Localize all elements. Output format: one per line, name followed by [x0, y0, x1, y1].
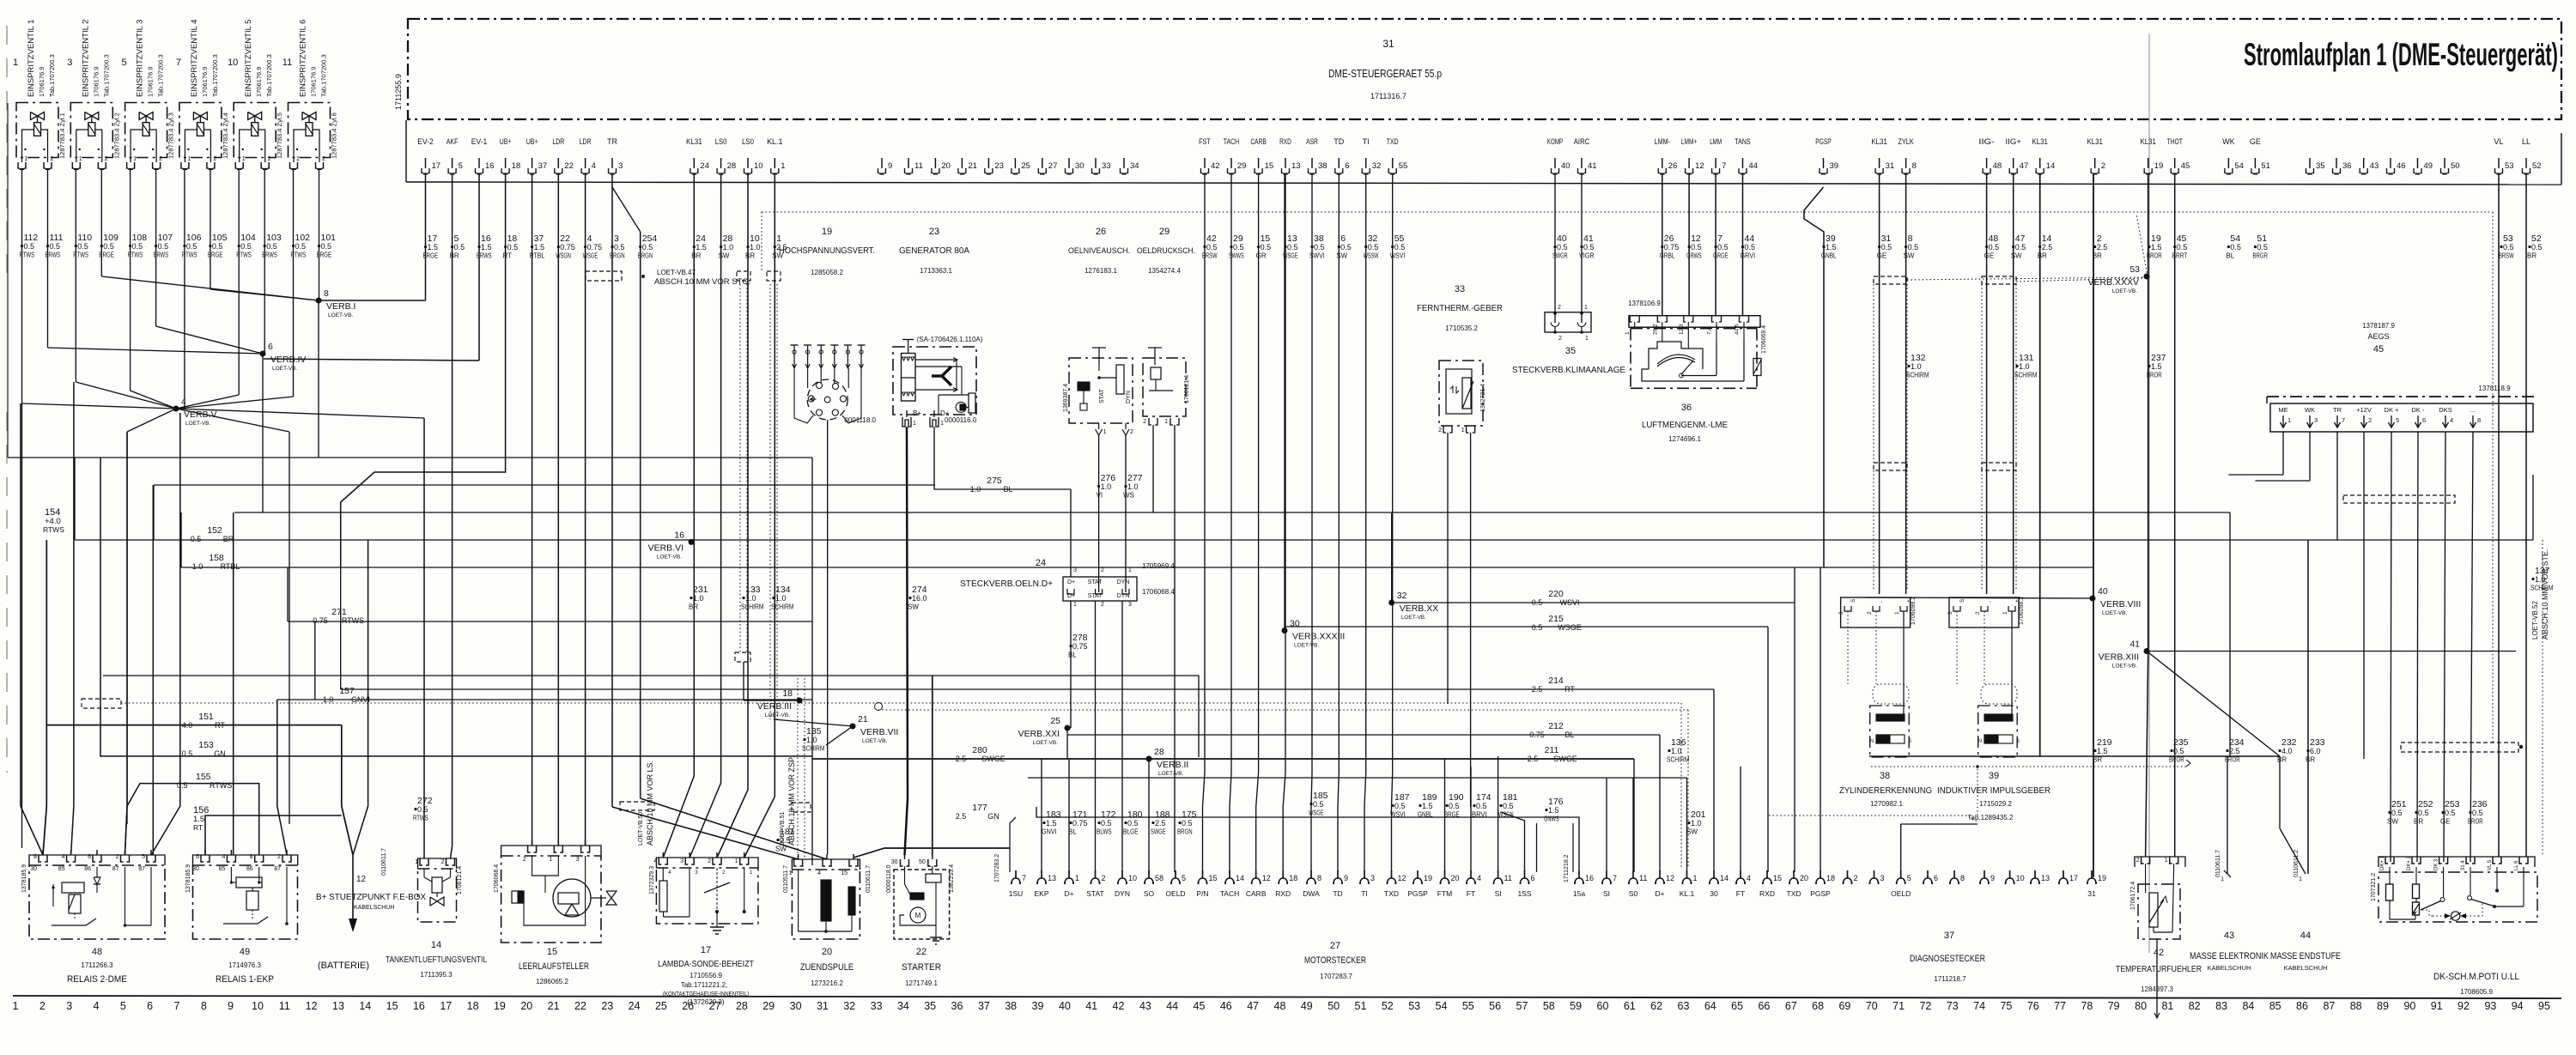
wire 185 label — [1309, 791, 1328, 817]
DME pin 10 LS0 — [742, 137, 762, 174]
svg-text:1287783.4 Zyl.5: 1287783.4 Zyl.5 — [276, 112, 283, 159]
svg-text:95: 95 — [2538, 1000, 2550, 1012]
svg-text:SCHIRM: SCHIRM — [741, 603, 764, 611]
svg-text:1: 1 — [940, 421, 944, 427]
svg-text:44: 44 — [1749, 161, 1759, 171]
svg-text:D+: D+ — [1067, 579, 1075, 585]
svg-text:1.0: 1.0 — [2019, 362, 2030, 371]
svg-text:30: 30 — [1710, 889, 1718, 898]
svg-text:33: 33 — [1455, 284, 1465, 294]
svg-text:1: 1 — [781, 161, 785, 171]
wire 214 label — [1532, 676, 1576, 694]
node VERB.VIII (40) — [2090, 586, 2142, 616]
svg-text:15: 15 — [841, 870, 848, 876]
svg-text:5: 5 — [142, 854, 145, 860]
svg-text:TI: TI — [1363, 137, 1370, 146]
svg-text:BRGR: BRGR — [2252, 252, 2268, 260]
svg-text:23: 23 — [994, 161, 1004, 171]
svg-text:275: 275 — [987, 476, 1002, 486]
svg-text:0.5: 0.5 — [182, 749, 193, 758]
svg-text:ABSCH.10 MM VOR STG.: ABSCH.10 MM VOR STG. — [654, 277, 750, 287]
svg-text:4: 4 — [2450, 416, 2453, 424]
svg-text:1.5: 1.5 — [2151, 243, 2162, 252]
svg-text:7: 7 — [1613, 874, 1617, 882]
svg-text:11: 11 — [283, 58, 292, 68]
svg-text:1: 1 — [913, 421, 916, 427]
svg-text:1274696.1: 1274696.1 — [1668, 435, 1701, 443]
svg-text:11: 11 — [914, 161, 923, 171]
svg-text:53: 53 — [2129, 264, 2140, 275]
DME connector strip outline — [406, 120, 2561, 185]
svg-text:DME-STEUERGERAET 55.p: DME-STEUERGERAET 55.p — [1328, 68, 1442, 80]
svg-text:RXD: RXD — [1275, 889, 1291, 898]
svg-text:1: 1 — [1461, 427, 1465, 434]
svg-text:1: 1 — [2221, 876, 2224, 882]
DME pin 41 AIRC — [1574, 137, 1597, 174]
svg-text:57: 57 — [1516, 1000, 1528, 1012]
svg-text:GN: GN — [214, 749, 226, 758]
svg-text:40: 40 — [2098, 586, 2108, 597]
svg-text:2.5: 2.5 — [1155, 819, 1166, 828]
wire 22 label (0.75 WSGN) — [556, 233, 575, 260]
svg-text:0.5: 0.5 — [1449, 802, 1460, 810]
svg-text:TR: TR — [607, 137, 617, 146]
svg-text:0.75: 0.75 — [1072, 642, 1088, 651]
wire 219 label — [2093, 737, 2112, 764]
svg-text:1378185.9: 1378185.9 — [21, 864, 27, 893]
svg-text:54: 54 — [2234, 161, 2244, 171]
wire 252 label — [2414, 799, 2433, 826]
svg-text:0.5: 0.5 — [212, 242, 223, 251]
svg-text:GNVI: GNVI — [1042, 828, 1057, 836]
svg-text:GENERATOR 80A: GENERATOR 80A — [899, 246, 969, 256]
svg-text:20: 20 — [520, 1000, 532, 1012]
svg-text:2.5: 2.5 — [1532, 685, 1543, 694]
svg-text:1.5: 1.5 — [696, 243, 707, 252]
wire 180 label — [1123, 809, 1143, 836]
svg-text:38: 38 — [1318, 161, 1327, 171]
shield dashed boxes for IIG/ZYLK wires — [1874, 276, 2016, 591]
MOTORSTECKER pin 10 DYN — [1115, 870, 1137, 898]
wire vertical x=118.3 — [100, 170, 102, 276]
svg-text:0.5: 0.5 — [2445, 809, 2456, 817]
svg-text:87: 87 — [2323, 1000, 2335, 1012]
svg-text:87: 87 — [274, 866, 281, 872]
svg-text:SWGE: SWGE — [1553, 755, 1577, 763]
svg-text:0.5: 0.5 — [2257, 243, 2268, 252]
svg-text:OELDRUCKSCH.: OELDRUCKSCH. — [1137, 246, 1195, 256]
svg-text:8: 8 — [33, 854, 37, 860]
svg-text:BRSW: BRSW — [2499, 252, 2514, 260]
wire vertical x=278.2 — [238, 170, 240, 395]
svg-text:44: 44 — [2300, 931, 2311, 941]
svg-text:1287783.4 Zyl.2: 1287783.4 Zyl.2 — [112, 112, 120, 159]
MOTORSTECKER pin 18 RXD — [1275, 870, 1297, 898]
svg-text:50: 50 — [1327, 1000, 1340, 1012]
wire 176 label — [1544, 797, 1564, 823]
svg-text:51: 51 — [1355, 1000, 1367, 1012]
svg-text:DK +: DK + — [2385, 406, 2400, 414]
wire 10 label (1.0 BR) — [745, 233, 761, 260]
svg-text:85: 85 — [219, 866, 226, 872]
node VERB.VI (16) — [648, 530, 695, 560]
wire 137 shield label far right — [2530, 540, 2554, 854]
wire 101 label (0.5 BRGE) — [317, 233, 337, 259]
distributor 19 HOCHSPANNUNGSVERT. — [779, 227, 875, 854]
svg-text:4.0: 4.0 — [2281, 747, 2293, 755]
svg-text:30: 30 — [1075, 161, 1084, 171]
svg-text:1378185.9: 1378185.9 — [185, 864, 191, 893]
svg-text:LAMBDA-SONDE-BEHEIZT: LAMBDA-SONDE-BEHEIZT — [658, 960, 754, 969]
svg-text:18: 18 — [512, 161, 521, 171]
svg-text:15: 15 — [1265, 161, 1274, 171]
svg-text:DK+ 2: DK+ 2 — [2407, 855, 2412, 870]
starter 22 STARTER — [886, 854, 955, 987]
wire 280 label — [956, 745, 1005, 763]
svg-text:24: 24 — [629, 1000, 641, 1012]
svg-text:TXD: TXD — [1387, 137, 1399, 146]
svg-text:1362721.4: 1362721.4 — [1480, 384, 1486, 412]
svg-text:58: 58 — [1543, 1000, 1555, 1012]
wire from DME pin at x=871 — [717, 174, 748, 858]
wire vertical x=88.3 — [75, 170, 76, 382]
svg-text:76: 76 — [2027, 1000, 2039, 1012]
svg-text:RXD: RXD — [1759, 889, 1775, 898]
svg-text:1708605.9: 1708605.9 — [2460, 988, 2493, 996]
DME pin 34 — [1121, 158, 1139, 174]
svg-text:2.5: 2.5 — [2229, 747, 2240, 755]
svg-text:0.5: 0.5 — [103, 242, 114, 251]
wire 233 label — [2306, 737, 2325, 764]
svg-text:59: 59 — [1570, 1000, 1582, 1012]
svg-text:0.5: 0.5 — [2177, 243, 2188, 252]
DIAGNOSESTECKER pin 16 15a — [1573, 870, 1594, 898]
DME pin 15 CARB — [1250, 137, 1273, 174]
svg-text:0.5: 0.5 — [1368, 243, 1379, 252]
wire 17 EV-2 to VERB.I — [319, 174, 426, 300]
cylinder sensor 38 ZYLINDERERKENNUNG — [1838, 597, 1932, 808]
svg-text:20: 20 — [1800, 874, 1808, 882]
svg-text:90: 90 — [2403, 1000, 2415, 1012]
svg-text:BR: BR — [223, 535, 234, 543]
svg-text:61: 61 — [1624, 1000, 1636, 1012]
svg-text:BROR: BROR — [2147, 372, 2162, 379]
DME pin 51 GE — [2250, 137, 2270, 174]
svg-text:1.0: 1.0 — [1101, 482, 1112, 491]
wire vertical x=181.6 — [155, 170, 157, 326]
svg-text:38: 38 — [1005, 1000, 1017, 1012]
svg-text:3: 3 — [1838, 611, 1844, 615]
svg-text:ZYLINDERERKENNUNG: ZYLINDERERKENNUNG — [1839, 786, 1932, 796]
wire 12 label (0.5 GRWS) — [1686, 233, 1702, 260]
svg-text:6: 6 — [196, 854, 199, 860]
svg-text:47: 47 — [1247, 1000, 1259, 1012]
dotted run sensors to diagnosis — [1769, 760, 2190, 822]
wire 253 label — [2440, 799, 2460, 826]
wire 108 label (0.5 RTWS) — [128, 233, 148, 259]
svg-text:EINSPRITZVENTIL 1: EINSPRITZVENTIL 1 — [27, 20, 36, 97]
svg-text:1714976.3: 1714976.3 — [228, 961, 261, 969]
wire horizontal y=533 — [8, 457, 531, 458]
svg-text:RTWS: RTWS — [413, 815, 428, 822]
svg-text:2: 2 — [708, 858, 711, 864]
svg-text:39: 39 — [1830, 161, 1839, 171]
svg-text:40: 40 — [1561, 161, 1571, 171]
DME pin 7 LMM — [1710, 137, 1726, 174]
wire 3 label (0.5 BRGN) — [610, 233, 625, 260]
svg-text:UB+: UB+ — [500, 137, 512, 146]
svg-text:ZYLK: ZYLK — [1898, 137, 1913, 146]
svg-text:OELD: OELD — [1891, 889, 1911, 898]
DME pin 8 ZYLK — [1898, 137, 1916, 174]
DME pin 46 — [2387, 158, 2406, 174]
wire 234 label — [2225, 737, 2245, 764]
svg-text:OELD: OELD — [1165, 889, 1185, 898]
svg-text:15a: 15a — [1573, 889, 1585, 898]
svg-text:0.5: 0.5 — [2531, 243, 2543, 252]
svg-text:1715029.2: 1715029.2 — [1979, 800, 2012, 808]
svg-text:KABELSCHUH: KABELSCHUH — [354, 905, 394, 911]
vertical legs of horizontal runs — [8, 103, 2533, 865]
svg-text:P/N: P/N — [1196, 889, 1208, 898]
wire 41 label (0.5 VIGR) — [1579, 233, 1595, 260]
DME pin 55 TXD — [1387, 137, 1407, 174]
tank vent valve 14 TANKENTLUEFTUNGSVENTIL — [386, 858, 487, 979]
svg-text:64: 64 — [1704, 1000, 1716, 1012]
svg-text:RTWS: RTWS — [210, 781, 232, 790]
svg-text:0.5: 0.5 — [240, 242, 252, 251]
svg-text:43: 43 — [1139, 1000, 1151, 1012]
svg-text:1: 1 — [789, 870, 793, 876]
svg-text:10: 10 — [1128, 874, 1137, 882]
svg-text:46: 46 — [1220, 1000, 1232, 1012]
svg-text:85: 85 — [2269, 1000, 2281, 1012]
svg-text:0.5: 0.5 — [1908, 243, 1919, 252]
wire drop x=1590.7 — [1364, 174, 1366, 872]
AEGS pin wires — [2228, 432, 2549, 862]
svg-text:BL: BL — [1564, 731, 1574, 739]
ruler numbers 1-95 — [13, 1000, 2550, 1012]
wire 42 label (0.5 BRSW) — [1202, 233, 1218, 260]
wire 15 label (0.5 GR) — [1256, 233, 1272, 260]
svg-text:LUFTMENGENM.-LME: LUFTMENGENM.-LME — [1642, 421, 1728, 430]
lambda sensor 17 LAMBDA-SONDE-BEHEIZT — [649, 852, 758, 1006]
svg-text:86: 86 — [246, 866, 253, 872]
wire 154 label — [43, 507, 64, 534]
svg-text:214: 214 — [1548, 676, 1564, 686]
svg-text:13: 13 — [332, 1000, 344, 1012]
svg-text:41: 41 — [1588, 161, 1597, 171]
svg-text:2: 2 — [277, 854, 281, 860]
DIAGNOSESTECKER pin 17 — [2059, 870, 2078, 884]
svg-text:VERB.VIII: VERB.VIII — [2100, 599, 2141, 609]
wire 32 label (0.5 WSSW) — [1364, 233, 1379, 260]
svg-text:0.5: 0.5 — [1989, 243, 2000, 252]
svg-text:KABELSCHUH: KABELSCHUH — [2208, 964, 2251, 972]
svg-text:20: 20 — [822, 947, 832, 957]
svg-text:33: 33 — [1102, 161, 1111, 171]
wire 51 label (0.5 BRGR) — [2252, 233, 2268, 260]
node VERB.XIII (41) — [2099, 640, 2516, 757]
svg-text:36: 36 — [951, 1000, 963, 1012]
svg-text:FT: FT — [1467, 889, 1475, 898]
svg-text:89: 89 — [2377, 1000, 2389, 1012]
svg-text:31: 31 — [817, 1000, 829, 1012]
svg-text:0.5: 0.5 — [1340, 243, 1352, 252]
DME pin 44 TANS — [1735, 137, 1758, 174]
svg-text:24: 24 — [700, 161, 709, 171]
DME pin 29 TACH — [1224, 137, 1247, 174]
ignition coil 20 ZUENDSPULE — [783, 854, 872, 987]
svg-text:RT: RT — [1564, 685, 1575, 694]
svg-text:30: 30 — [30, 866, 37, 872]
wire 220 from VERB.XX — [1392, 602, 1795, 603]
DME pin 45 THOT — [2167, 137, 2190, 174]
shield termination note LOET-VB.47 — [586, 187, 750, 287]
svg-text:2: 2 — [441, 859, 445, 865]
wire 274 label — [908, 585, 927, 611]
svg-text:1.5: 1.5 — [2151, 362, 2162, 371]
svg-text:1378118.9: 1378118.9 — [2478, 385, 2511, 392]
wire 18 label (0.5 RT) — [503, 233, 519, 260]
svg-text:0.5: 0.5 — [1394, 243, 1406, 252]
svg-text:TXD: TXD — [1384, 889, 1399, 898]
svg-text:1354274.4: 1354274.4 — [1148, 267, 1181, 275]
svg-text:LOET-VB.: LOET-VB. — [272, 366, 297, 372]
svg-text:RT: RT — [215, 721, 225, 730]
svg-text:2: 2 — [322, 156, 325, 162]
DIAGNOSESTECKER pin 20 TXD — [1787, 870, 1809, 898]
wire drop x=1497 — [1283, 174, 1285, 872]
svg-text:2.5: 2.5 — [956, 755, 967, 763]
svg-text:25: 25 — [1021, 161, 1030, 171]
svg-text:LMM+: LMM+ — [1681, 137, 1697, 146]
ground lug 43 MASSE ELEKTRONIK — [2190, 756, 2269, 972]
svg-text:10: 10 — [252, 1000, 264, 1012]
svg-text:BL: BL — [1003, 485, 1012, 494]
DME pin 19 KL31 — [2141, 137, 2164, 174]
svg-text:SCHIRM: SCHIRM — [2014, 372, 2038, 379]
DIAGNOSESTECKER pin 2 — [1844, 870, 1858, 884]
svg-text:4: 4 — [1477, 874, 1481, 882]
wire 39 label (1.5 GNBL) — [1821, 233, 1837, 260]
svg-text:2: 2 — [2368, 416, 2372, 424]
wire from DME pin at x=839.6 — [690, 174, 720, 858]
DIAGNOSESTECKER pin 12 D+ — [1655, 870, 1674, 898]
wire 171 label — [1068, 809, 1088, 836]
svg-text:LOET-VB.: LOET-VB. — [185, 421, 210, 427]
svg-text:22: 22 — [916, 947, 927, 957]
DME pin 43 — [2360, 158, 2379, 174]
svg-text:32: 32 — [843, 1000, 855, 1012]
svg-text:KL31: KL31 — [1871, 137, 1886, 146]
svg-text:177: 177 — [972, 803, 987, 813]
DME pin 52 LL — [2522, 137, 2542, 174]
svg-text:LS0: LS0 — [742, 137, 754, 146]
svg-text:25: 25 — [1050, 716, 1060, 726]
wire 29 label (0.5 SWWS) — [1229, 233, 1244, 260]
svg-text:1707283.2: 1707283.2 — [994, 854, 1000, 882]
svg-text:60: 60 — [1597, 1000, 1609, 1012]
DME pin 39 PGSP — [1815, 137, 1838, 174]
svg-text:WS: WS — [1123, 492, 1134, 500]
svg-text:45: 45 — [2373, 344, 2384, 355]
svg-text:DKS: DKS — [2439, 406, 2451, 414]
wire 277 label — [1123, 473, 1143, 500]
svg-text:1706176.9: 1706176.9 — [255, 67, 263, 97]
wire drop x=1434 — [1230, 174, 1231, 872]
svg-text:3: 3 — [1073, 567, 1077, 573]
svg-text:SCHIRM: SCHIRM — [1906, 372, 1929, 379]
svg-text:91: 91 — [2431, 1000, 2443, 1012]
svg-text:1SS: 1SS — [1517, 889, 1531, 898]
svg-text:7: 7 — [174, 1000, 180, 1012]
wire horizontal y=787 — [103, 675, 1199, 676]
svg-text:43: 43 — [2370, 161, 2379, 171]
DME pin 4 LDR — [580, 137, 596, 174]
svg-text:ABSCH.10 MM VOR ZSP.: ABSCH.10 MM VOR ZSP. — [787, 756, 796, 846]
DIAGNOSESTECKER pin 6 — [1923, 870, 1938, 884]
svg-text:EINSPRITZVENTIL 2: EINSPRITZVENTIL 2 — [81, 20, 90, 97]
wire 19 label (1.5 BROR) — [2147, 233, 2162, 260]
svg-text:4: 4 — [62, 854, 65, 860]
wire 132 label — [1906, 353, 1929, 379]
svg-text:58: 58 — [1155, 874, 1163, 882]
svg-text:4.0: 4.0 — [182, 721, 193, 730]
svg-text:44,5: 44,5 — [1735, 324, 1741, 335]
svg-text:19: 19 — [2154, 161, 2164, 171]
svg-text:73: 73 — [1947, 1000, 1959, 1012]
wire 133 label — [741, 585, 764, 611]
svg-text:1.5: 1.5 — [1422, 802, 1433, 810]
svg-text:2: 2 — [1438, 427, 1442, 434]
svg-text:LMM: LMM — [1710, 137, 1722, 146]
svg-text:4: 4 — [222, 854, 225, 860]
svg-text:2: 2 — [39, 1000, 46, 1012]
svg-text:TACH: TACH — [1224, 137, 1239, 146]
svg-text:0.5: 0.5 — [24, 242, 35, 251]
svg-text:0.5: 0.5 — [1101, 819, 1112, 828]
svg-text:26,2: 26,2 — [1652, 324, 1658, 335]
svg-text:TD: TD — [1333, 889, 1342, 898]
svg-text:67: 67 — [1785, 1000, 1797, 1012]
svg-text:14: 14 — [431, 940, 441, 950]
svg-text:49: 49 — [1301, 1000, 1313, 1012]
svg-text:BROR: BROR — [2147, 252, 2162, 260]
svg-text:0.5: 0.5 — [1691, 243, 1702, 252]
svg-text:19: 19 — [494, 1000, 506, 1012]
svg-text:1: 1 — [79, 156, 82, 162]
DME pin 48 IIG- — [1978, 137, 2002, 174]
MOTORSTECKER label — [1304, 823, 1537, 980]
wire 237 label — [2147, 353, 2166, 379]
svg-text:31 4: 31 4 — [2461, 860, 2466, 870]
svg-text:2: 2 — [1854, 874, 1858, 882]
DME pin 14 KL31 — [2032, 137, 2056, 174]
svg-text:Stromlaufplan 1 (DME-Steuerger: Stromlaufplan 1 (DME-Steuergerät) — [2244, 37, 2558, 72]
svg-text:28: 28 — [1154, 747, 1164, 757]
wire 110 label (0.5 RTWS) — [73, 233, 92, 259]
svg-text:Tab.1707200.3: Tab.1707200.3 — [48, 54, 56, 97]
svg-text:87: 87 — [112, 866, 119, 872]
svg-text:21: 21 — [548, 1000, 560, 1012]
wire horizontal y=597 — [234, 512, 2230, 513]
DME pin 33 — [1092, 158, 1111, 174]
svg-text:4: 4 — [817, 870, 821, 876]
MOTORSTECKER pin 13 EKP — [1034, 870, 1056, 898]
svg-text:0000118.0: 0000118.0 — [886, 864, 892, 893]
svg-text:KABELSCHUH: KABELSCHUH — [2284, 964, 2328, 972]
